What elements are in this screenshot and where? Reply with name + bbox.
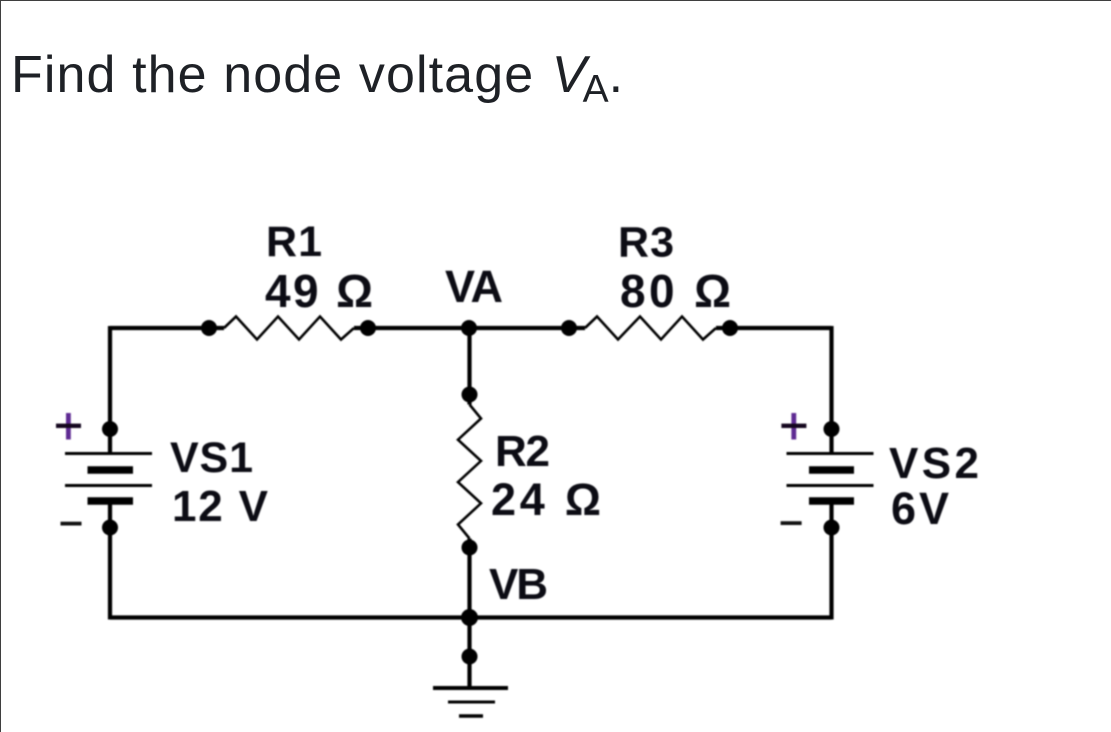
node dot VS1 minus (102, 520, 118, 536)
battery VS2 plates (787, 454, 874, 502)
svg-text:R1: R1 (266, 218, 322, 266)
resistor R2 zigzag (458, 405, 481, 539)
wire bottom horizontal (110, 615, 832, 619)
svg-text:12 V: 12 V (172, 482, 269, 531)
svg-text:VS1: VS1 (170, 434, 253, 482)
minus sign VS2 (781, 521, 802, 525)
wire left vertical lower (108, 501, 112, 620)
wire R1 to VA to R3 (354, 326, 585, 330)
svg-text:6V: 6V (891, 483, 949, 534)
wire top left horizontal (110, 326, 224, 330)
wire R3 right to corner (716, 326, 832, 330)
wire right vertical upper (829, 326, 833, 453)
svg-text:VB: VB (489, 560, 548, 609)
svg-text:R3: R3 (618, 219, 674, 267)
ground (433, 688, 508, 716)
node dot VS1 plus (102, 421, 118, 437)
plus sign VS2 (781, 413, 806, 440)
wire R2 bottom to VB (467, 539, 471, 618)
title (11, 49, 624, 101)
node dot R1 left (201, 320, 217, 336)
wire right vertical lower (829, 501, 833, 620)
node dot R2 bottom (462, 540, 478, 556)
node dot R3 right (722, 320, 738, 336)
minus sign VS1 (61, 522, 82, 526)
node dot R2 top (462, 387, 478, 403)
svg-text:49 Ω: 49 Ω (265, 265, 373, 317)
node dot VA (461, 320, 477, 336)
node dot VS2 plus (824, 421, 840, 437)
svg-text:VS2: VS2 (889, 439, 979, 488)
resistor R3 zigzag (585, 317, 716, 340)
wire VB down to ground (467, 618, 471, 689)
battery VS1 plates (65, 454, 152, 502)
resistor R1 zigzag (224, 317, 354, 340)
wire left vertical upper (108, 326, 112, 453)
wire VA down to R2 (467, 328, 471, 405)
svg-text:24 Ω: 24 Ω (491, 474, 601, 525)
svg-text:VA: VA (445, 261, 503, 312)
node dot above ground (462, 649, 478, 665)
plus sign VS1 (56, 413, 81, 440)
node dot R1 right (360, 320, 376, 336)
svg-text:R2: R2 (495, 427, 550, 476)
svg-text:80 Ω: 80 Ω (620, 265, 731, 317)
node dot VS2 minus (824, 520, 840, 536)
node dot VB (461, 609, 478, 626)
node dot R3 left (561, 320, 577, 336)
